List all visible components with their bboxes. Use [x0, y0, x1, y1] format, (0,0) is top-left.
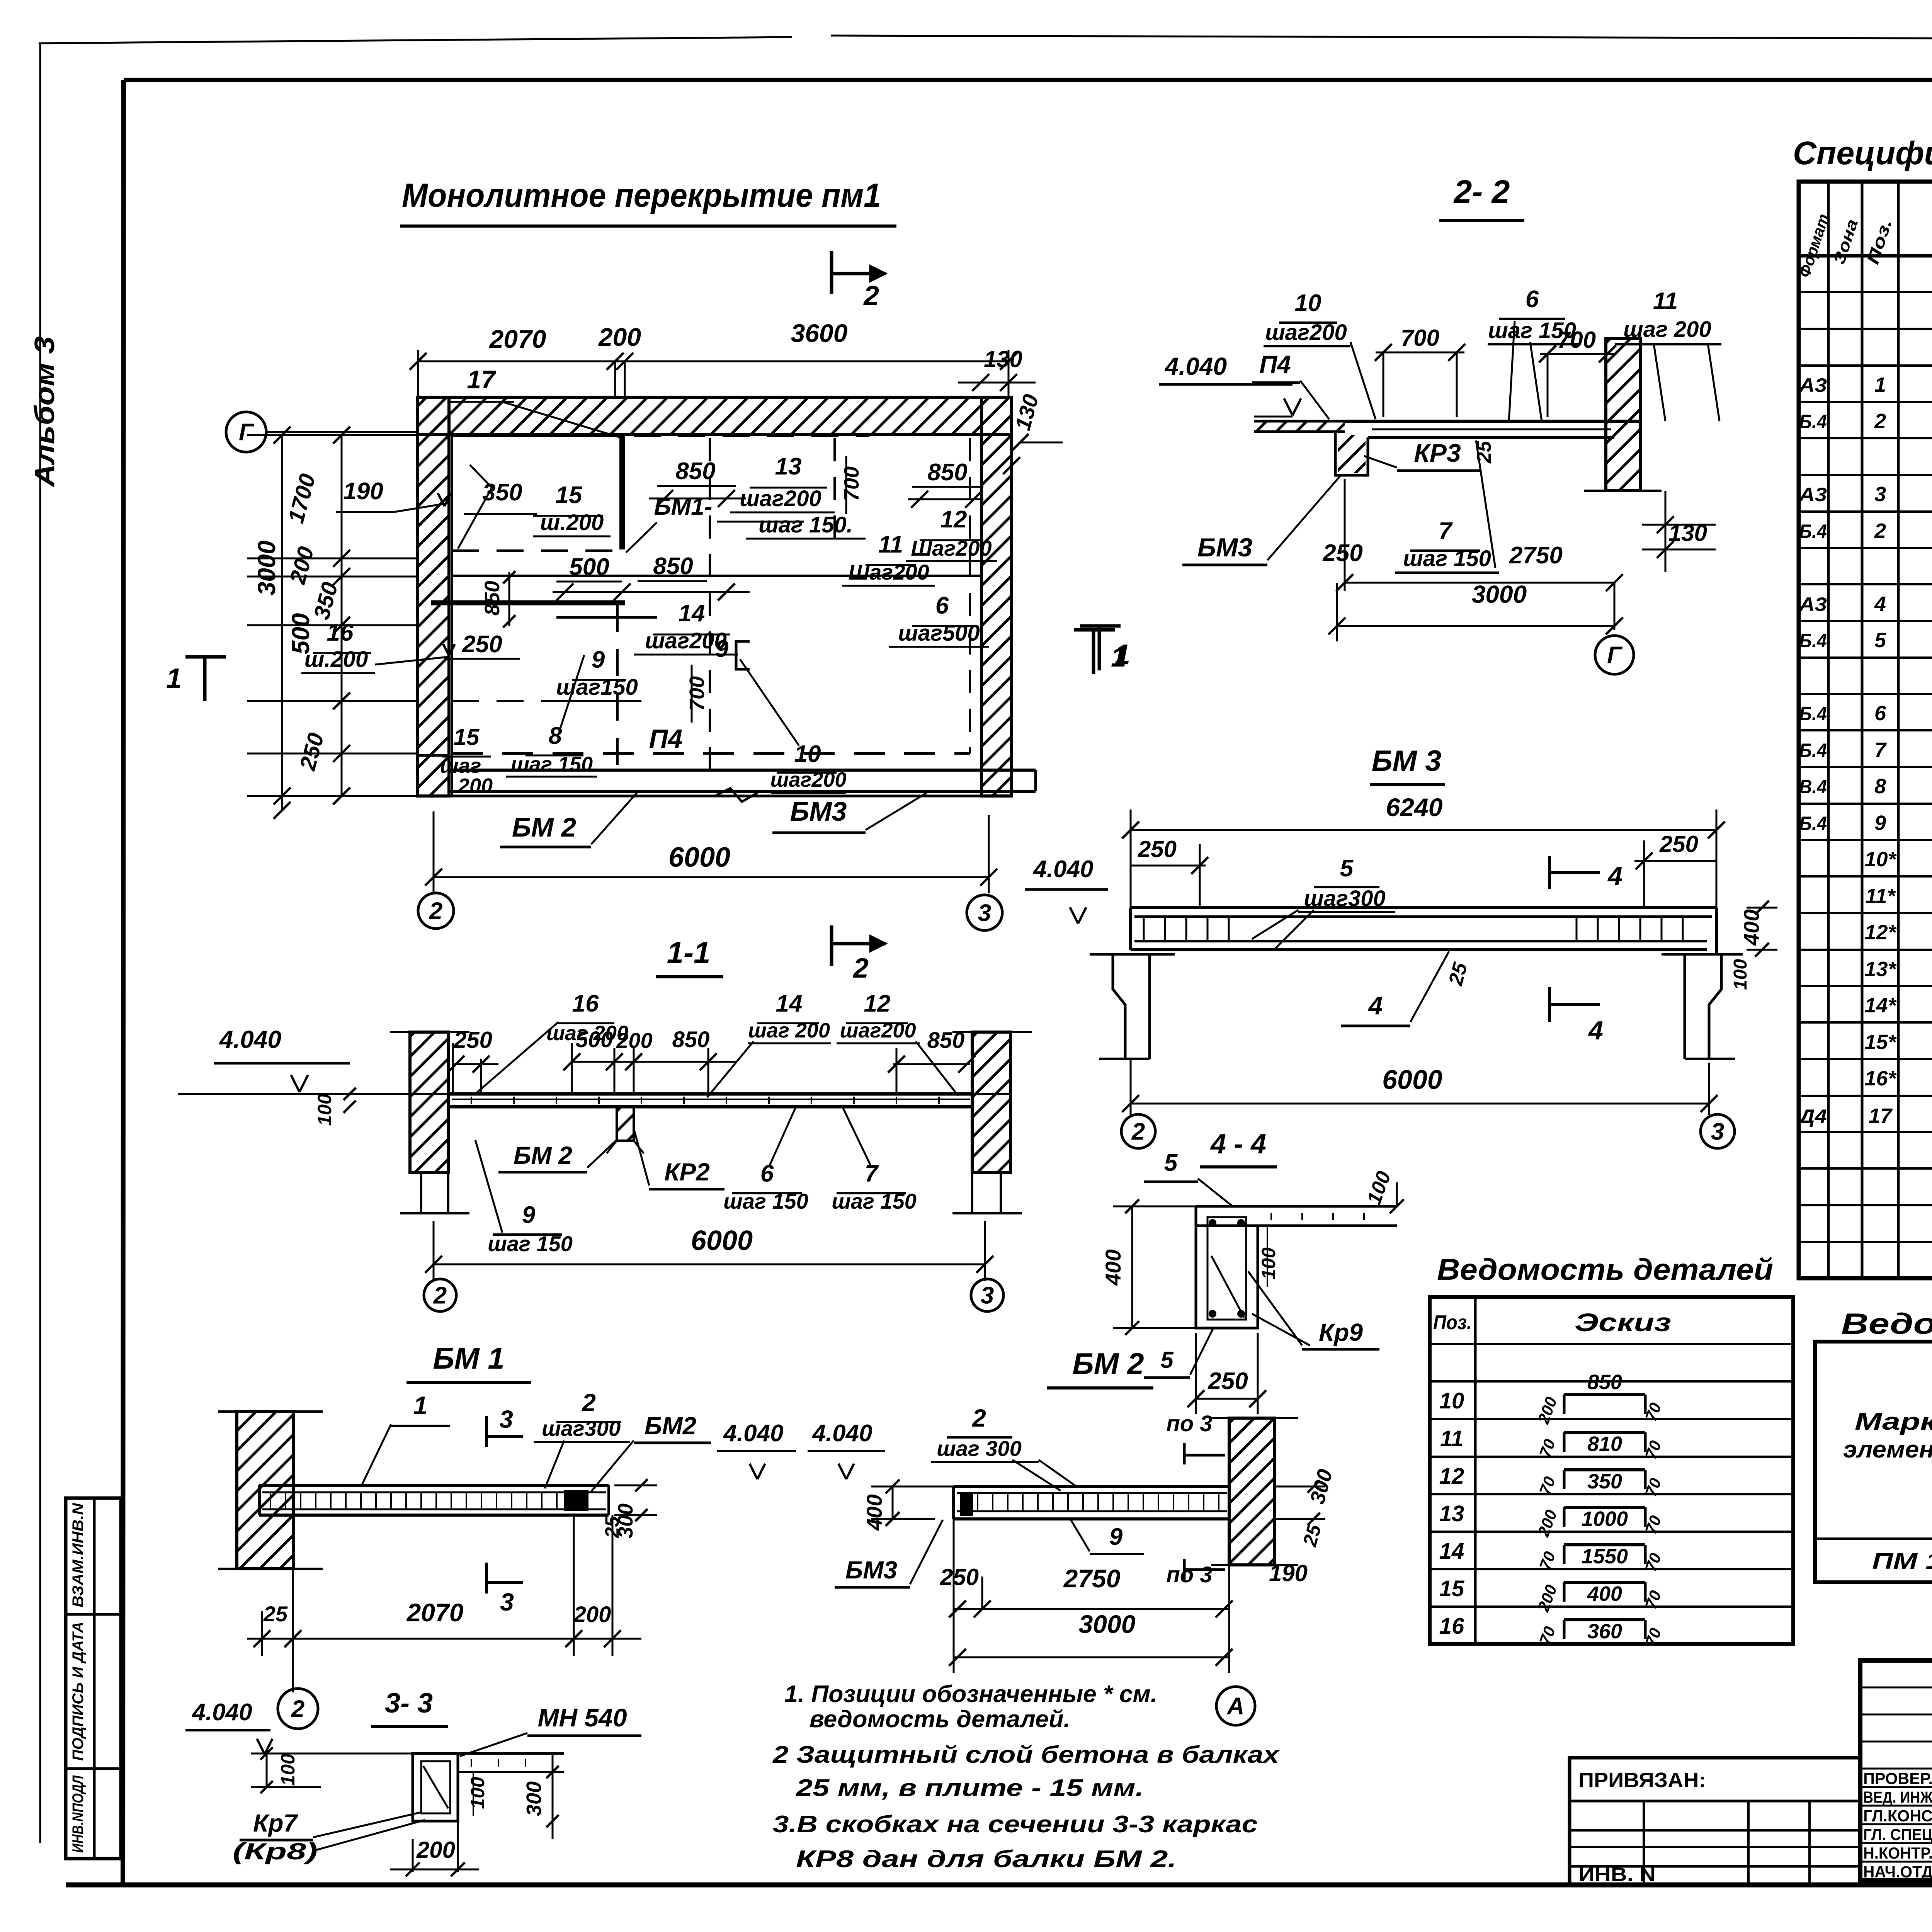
svg-text:Н.КОНТР.: Н.КОНТР. — [1863, 1844, 1932, 1862]
svg-text:МН 540: МН 540 — [537, 1703, 627, 1732]
svg-text:250: 250 — [453, 1027, 492, 1053]
svg-text:2: 2 — [1131, 1119, 1145, 1145]
svg-text:Альбом 3: Альбом 3 — [29, 336, 60, 488]
svg-text:10: 10 — [1295, 290, 1321, 316]
svg-text:6: 6 — [760, 1160, 774, 1187]
svg-text:ИНВ. N: ИНВ. N — [1578, 1864, 1656, 1885]
svg-text:КР2: КР2 — [664, 1158, 710, 1186]
svg-text:ВЕД. ИНЖ: ВЕД. ИНЖ — [1863, 1788, 1932, 1806]
svg-text:3000: 3000 — [253, 541, 281, 595]
svg-text:ГЛ. СПЕЦ: ГЛ. СПЕЦ — [1863, 1825, 1932, 1844]
svg-text:Кр9: Кр9 — [1319, 1318, 1363, 1346]
svg-text:Б.4: Б.4 — [1799, 813, 1827, 834]
svg-text:БМ2: БМ2 — [645, 1412, 696, 1440]
1-1 left wall — [410, 1032, 448, 1173]
plan dim 6000 — [434, 876, 989, 878]
svg-text:850: 850 — [653, 553, 693, 580]
BM3 section mark 4 top — [1548, 856, 1551, 889]
svg-text:300: 300 — [614, 1503, 637, 1538]
plan left dim chain — [281, 435, 283, 810]
svg-text:Шаг200: Шаг200 — [848, 560, 929, 584]
svg-text:13*: 13* — [1864, 957, 1897, 981]
svg-text:Поз.: Поз. — [1433, 1311, 1472, 1334]
section mark 2 top — [830, 251, 833, 294]
svg-text:16*: 16* — [1864, 1067, 1897, 1090]
svg-text:4.040: 4.040 — [219, 1026, 281, 1053]
svg-text:КР3: КР3 — [1414, 439, 1461, 467]
svg-text:шаг200: шаг200 — [645, 628, 727, 653]
svg-text:элемента: элемента — [1843, 1436, 1932, 1463]
svg-text:НАЧ.ОТД: НАЧ.ОТД — [1863, 1863, 1932, 1881]
svg-text:10*: 10* — [1864, 848, 1897, 871]
svg-text:4: 4 — [1588, 1016, 1603, 1045]
svg-text:БМ 2: БМ 2 — [1072, 1347, 1144, 1381]
svg-text:130: 130 — [984, 346, 1022, 372]
2-2 right wall — [1606, 338, 1640, 491]
svg-text:2: 2 — [1874, 519, 1886, 543]
svg-text:ВЗАМ.ИНВ.N: ВЗАМ.ИНВ.N — [70, 1503, 87, 1607]
2-2 drop beam — [1335, 432, 1368, 475]
svg-text:2750: 2750 — [1063, 1564, 1121, 1593]
svg-text:Б.4: Б.4 — [1799, 520, 1827, 542]
svg-text:13: 13 — [1439, 1501, 1464, 1526]
svg-text:7: 7 — [1439, 518, 1453, 544]
svg-text:12: 12 — [940, 506, 967, 533]
svg-text:14*: 14* — [1864, 994, 1897, 1017]
svg-text:4.040: 4.040 — [1164, 352, 1227, 380]
svg-text:БМ3: БМ3 — [790, 796, 847, 827]
svg-text:12: 12 — [1439, 1464, 1464, 1489]
svg-text:3: 3 — [1874, 483, 1886, 506]
svg-text:Ведомость расхода стали на э: Ведомость расхода стали на элемент кг — [1841, 1308, 1932, 1340]
svg-text:400: 400 — [1739, 909, 1764, 946]
svg-text:по 3: по 3 — [1166, 1411, 1212, 1436]
svg-text:Б.4: Б.4 — [1799, 740, 1827, 761]
svg-text:Д4: Д4 — [1797, 1105, 1827, 1127]
svg-text:шаг 150.: шаг 150. — [759, 512, 853, 537]
svg-text:А3: А3 — [1798, 484, 1827, 505]
svg-text:16: 16 — [1439, 1614, 1464, 1639]
svg-text:А: А — [1226, 1693, 1245, 1720]
svg-text:БМ1-: БМ1- — [654, 493, 713, 520]
svg-text:850: 850 — [1587, 1371, 1622, 1394]
svg-text:9: 9 — [1874, 811, 1886, 835]
svg-text:Г: Г — [1607, 642, 1623, 669]
svg-text:100: 100 — [1730, 959, 1751, 990]
2-2 section mark 1 — [1092, 630, 1095, 674]
svg-text:шаг300: шаг300 — [542, 1416, 621, 1440]
3-3 slab — [458, 1752, 564, 1755]
svg-text:360: 360 — [1587, 1620, 1622, 1643]
svg-text:3- 3: 3- 3 — [385, 1688, 433, 1719]
2-2 dim 700 left — [1376, 352, 1464, 354]
BM1 left wall — [237, 1412, 294, 1569]
svg-text:400: 400 — [1101, 1249, 1125, 1286]
svg-text:ГЛ.КОНС: ГЛ.КОНС — [1863, 1807, 1932, 1825]
svg-text:6000: 6000 — [691, 1225, 753, 1256]
svg-text:1: 1 — [413, 1391, 428, 1420]
svg-text:3000: 3000 — [1079, 1610, 1136, 1638]
svg-text:2750: 2750 — [1509, 542, 1563, 569]
svg-text:16: 16 — [572, 990, 599, 1017]
svg-text:БМ3: БМ3 — [1197, 533, 1253, 562]
svg-text:Спецификация к монолитному пер: Спецификация к монолитному перекрытию ПМ… — [1793, 135, 1932, 171]
svg-text:250: 250 — [1659, 831, 1698, 857]
svg-text:350: 350 — [1587, 1470, 1622, 1493]
svg-text:14: 14 — [679, 600, 705, 627]
BM1 beam — [259, 1484, 609, 1487]
svg-text:100: 100 — [277, 1753, 299, 1786]
svg-text:Монолитное перекрытие пм1: Монолитное перекрытие пм1 — [402, 177, 881, 214]
grid bubble 2 plan — [418, 893, 454, 929]
svg-text:Б.4: Б.4 — [1799, 630, 1827, 651]
svg-text:3: 3 — [499, 1405, 513, 1433]
svg-text:100: 100 — [314, 1094, 335, 1126]
title block frame — [1860, 1660, 1932, 1880]
svg-text:11: 11 — [1440, 1426, 1463, 1451]
svg-text:200: 200 — [457, 774, 493, 798]
svg-text:250: 250 — [462, 631, 502, 658]
svg-text:ПРОВЕР.: ПРОВЕР. — [1863, 1769, 1932, 1787]
svg-text:16: 16 — [327, 619, 354, 646]
section mark 1 right — [1098, 626, 1101, 670]
svg-text:П4: П4 — [649, 724, 683, 753]
section mark 1 left — [203, 657, 207, 701]
svg-text:БМ 2: БМ 2 — [512, 812, 576, 842]
svg-text:шаг 200: шаг 200 — [546, 1022, 628, 1045]
svg-text:БМ 1: БМ 1 — [433, 1341, 504, 1375]
BM3 left support — [1113, 954, 1125, 1059]
svg-text:В.4: В.4 — [1799, 776, 1827, 798]
svg-text:Шаг200: Шаг200 — [911, 536, 992, 560]
svg-text:200: 200 — [416, 1837, 455, 1863]
svg-text:2: 2 — [429, 898, 442, 925]
svg-text:15: 15 — [454, 724, 480, 750]
svg-text:3600: 3600 — [791, 319, 848, 347]
svg-text:6240: 6240 — [1386, 793, 1443, 821]
svg-text:15: 15 — [1439, 1576, 1464, 1601]
svg-text:7: 7 — [1874, 738, 1887, 762]
svg-text:2: 2 — [863, 281, 879, 311]
BM3 right support — [1709, 954, 1721, 1059]
svg-text:БМ3: БМ3 — [845, 1556, 897, 1584]
2-2 slab — [1345, 420, 1640, 423]
svg-text:ПОДПИСЬ И ДАТА: ПОДПИСЬ И ДАТА — [70, 1622, 87, 1761]
svg-text:15: 15 — [556, 482, 583, 509]
1-1 slab — [178, 1093, 1010, 1095]
svg-text:Эскиз: Эскиз — [1575, 1308, 1671, 1337]
BM1 bubble 2 — [278, 1689, 318, 1729]
svg-text:Г: Г — [239, 419, 255, 446]
svg-text:5: 5 — [1874, 629, 1886, 652]
svg-text:11: 11 — [1653, 288, 1678, 315]
svg-text:9: 9 — [522, 1202, 536, 1228]
svg-text:100: 100 — [467, 1777, 488, 1809]
1-1 right wall — [972, 1032, 1010, 1173]
svg-text:250: 250 — [940, 1564, 979, 1590]
svg-text:А3: А3 — [1798, 594, 1827, 615]
plan interior dashed lines — [452, 575, 981, 577]
svg-text:(Кр8): (Кр8) — [233, 1838, 318, 1864]
svg-text:3: 3 — [1711, 1119, 1724, 1145]
svg-text:БМ 3: БМ 3 — [1372, 745, 1442, 777]
4-4 beam outline — [1196, 1206, 1258, 1328]
svg-text:шаг 150: шаг 150 — [1403, 546, 1491, 571]
svg-text:шаг500: шаг500 — [898, 621, 980, 646]
plan top wall — [417, 397, 1012, 435]
svg-text:10: 10 — [1439, 1388, 1464, 1413]
1-1 bubble 2 — [424, 1279, 456, 1311]
plan bottom beam band — [417, 755, 449, 796]
svg-text:17: 17 — [1869, 1104, 1893, 1128]
plan dimension line top — [418, 361, 1009, 362]
svg-text:Ведомость деталей: Ведомость деталей — [1437, 1252, 1773, 1286]
drawing frame — [124, 78, 1932, 82]
plan opening leaders — [458, 465, 492, 549]
svg-text:3: 3 — [500, 1588, 514, 1616]
svg-text:4.040: 4.040 — [811, 1420, 872, 1447]
svg-text:2: 2 — [582, 1389, 596, 1417]
title block signature rows — [1860, 1687, 1932, 1689]
BM2 beam — [954, 1485, 1229, 1488]
BM1 bottom dims — [247, 1638, 641, 1640]
svg-text:6000: 6000 — [668, 842, 730, 873]
plan right wall — [981, 397, 1012, 796]
svg-text:шаг200: шаг200 — [770, 768, 847, 791]
sheet outer edge top — [39, 37, 792, 43]
svg-text:3: 3 — [978, 900, 991, 927]
1-1 beam BM2 cross — [617, 1107, 634, 1141]
svg-text:2- 2: 2- 2 — [1453, 173, 1510, 210]
svg-text:Б.4: Б.4 — [1799, 703, 1827, 724]
svg-text:2: 2 — [972, 1404, 986, 1432]
svg-text:шаг 200: шаг 200 — [748, 1019, 830, 1042]
svg-text:2: 2 — [1874, 410, 1886, 433]
BM3 bubble 2 — [1121, 1114, 1155, 1148]
steel table grid — [1815, 1342, 1932, 1582]
2-2 slab left strip — [1254, 420, 1345, 423]
svg-text:13: 13 — [775, 453, 802, 480]
BM1 section mark 3 top — [485, 1416, 488, 1447]
svg-text:1550: 1550 — [1582, 1545, 1628, 1568]
svg-text:2: 2 — [852, 953, 869, 984]
svg-text:850: 850 — [481, 581, 504, 616]
svg-text:200: 200 — [598, 323, 641, 351]
svg-text:4: 4 — [1874, 592, 1886, 616]
svg-text:190: 190 — [1269, 1560, 1308, 1586]
plan interior opening outline — [431, 600, 625, 605]
svg-text:250: 250 — [1138, 836, 1177, 862]
svg-text:1. Позиции обозначенные * см.: 1. Позиции обозначенные * см. — [784, 1681, 1157, 1708]
svg-text:4: 4 — [1607, 861, 1622, 891]
svg-text:4: 4 — [1368, 991, 1383, 1020]
svg-text:300: 300 — [522, 1781, 546, 1816]
2-2 bubble G — [1595, 636, 1634, 674]
BM3 section mark 4 bottom — [1548, 987, 1551, 1022]
svg-text:700: 700 — [1557, 327, 1596, 353]
svg-text:17: 17 — [467, 365, 497, 394]
svg-text:Кр7: Кр7 — [253, 1809, 298, 1837]
svg-text:7: 7 — [865, 1160, 879, 1187]
svg-text:3: 3 — [981, 1282, 994, 1309]
svg-text:шаг 150: шаг 150 — [511, 753, 593, 776]
svg-text:ПРИВЯЗАН:: ПРИВЯЗАН: — [1578, 1769, 1706, 1792]
svg-text:1: 1 — [166, 663, 182, 694]
svg-text:200: 200 — [573, 1602, 611, 1627]
svg-text:4.040: 4.040 — [723, 1420, 783, 1447]
1-1 dim 6000 — [434, 1264, 985, 1265]
svg-text:ведомость деталей.: ведомость деталей. — [810, 1706, 1070, 1733]
svg-text:850: 850 — [927, 1028, 965, 1053]
svg-text:190: 190 — [343, 478, 383, 505]
svg-text:9: 9 — [592, 646, 605, 673]
BM2 bubble A — [1216, 1687, 1255, 1725]
svg-text:шаг 150: шаг 150 — [832, 1189, 917, 1213]
svg-text:700: 700 — [1401, 325, 1439, 351]
svg-text:КР8 дан для балки БМ 2.: КР8 дан для балки БМ 2. — [796, 1846, 1177, 1872]
svg-text:6: 6 — [1526, 286, 1539, 313]
svg-text:3.В скобках на сечении 3-3 кар: 3.В скобках на сечении 3-3 каркас — [773, 1811, 1258, 1838]
BM3 beam — [1131, 906, 1716, 909]
svg-text:850: 850 — [927, 459, 967, 486]
svg-text:2070: 2070 — [406, 1598, 464, 1627]
svg-text:шаг 150: шаг 150 — [723, 1189, 808, 1213]
svg-text:5: 5 — [1340, 855, 1354, 882]
svg-text:850: 850 — [675, 458, 715, 485]
svg-text:400: 400 — [862, 1494, 886, 1531]
BM1 section mark 3 bottom — [485, 1563, 488, 1594]
svg-text:по 3: по 3 — [1166, 1562, 1212, 1587]
svg-text:100: 100 — [1258, 1247, 1279, 1280]
svg-text:ш.200: ш.200 — [540, 510, 604, 535]
svg-text:500: 500 — [569, 554, 609, 580]
svg-text:1: 1 — [1111, 642, 1126, 673]
svg-text:14: 14 — [1439, 1539, 1464, 1564]
svg-text:шаг200: шаг200 — [740, 486, 821, 511]
svg-text:6000: 6000 — [1382, 1065, 1442, 1095]
svg-text:шаг 150: шаг 150 — [488, 1231, 573, 1256]
plan break mark — [715, 788, 757, 802]
svg-text:9: 9 — [1109, 1524, 1123, 1550]
svg-text:Марка: Марка — [1855, 1408, 1932, 1435]
svg-text:2070: 2070 — [489, 325, 546, 353]
privyazan table — [1570, 1758, 1860, 1885]
svg-text:4.040: 4.040 — [191, 1699, 252, 1726]
svg-text:15*: 15* — [1864, 1031, 1897, 1054]
svg-text:6: 6 — [1874, 702, 1886, 725]
svg-text:250: 250 — [1322, 540, 1362, 566]
4-4 slab band — [1196, 1205, 1397, 1208]
BM3 bubble 3 — [1701, 1114, 1735, 1148]
svg-text:А3: А3 — [1798, 374, 1827, 396]
svg-text:12*: 12* — [1864, 921, 1897, 944]
left stamp box — [66, 1498, 121, 1859]
svg-text:700: 700 — [685, 676, 709, 711]
svg-text:8: 8 — [1874, 775, 1886, 798]
svg-text:шаг200: шаг200 — [840, 1019, 916, 1042]
svg-text:1-1: 1-1 — [667, 935, 711, 969]
svg-text:4.040: 4.040 — [1032, 856, 1093, 883]
svg-text:ПМ 1: ПМ 1 — [1872, 1549, 1932, 1574]
svg-text:350: 350 — [482, 479, 522, 506]
specification table grid — [1799, 182, 1932, 1278]
svg-text:шаг: шаг — [440, 754, 481, 777]
svg-text:850: 850 — [672, 1027, 710, 1052]
svg-text:1: 1 — [1874, 373, 1886, 396]
svg-text:25: 25 — [263, 1602, 288, 1626]
svg-text:250: 250 — [1207, 1368, 1248, 1395]
plan left wall — [417, 397, 449, 796]
svg-text:4 - 4: 4 - 4 — [1210, 1129, 1266, 1160]
1-1 bubble 3 — [971, 1279, 1003, 1311]
svg-text:БМ 2: БМ 2 — [514, 1141, 572, 1169]
svg-text:810: 810 — [1587, 1432, 1622, 1456]
section mark 2 bottom — [830, 925, 833, 966]
svg-text:шаг200: шаг200 — [1265, 320, 1347, 345]
svg-text:ИНВ.NПОДЛ: ИНВ.NПОДЛ — [70, 1775, 87, 1853]
svg-text:11*: 11* — [1865, 884, 1896, 908]
svg-text:2: 2 — [433, 1282, 447, 1309]
svg-text:700: 700 — [840, 466, 863, 501]
BM2 right wall — [1229, 1418, 1274, 1565]
svg-text:3000: 3000 — [1472, 580, 1527, 608]
svg-text:5: 5 — [1160, 1347, 1174, 1373]
svg-text:400: 400 — [1587, 1582, 1622, 1605]
svg-text:шаг 300: шаг 300 — [937, 1436, 1022, 1461]
svg-text:14: 14 — [776, 990, 803, 1017]
svg-text:1000: 1000 — [1582, 1507, 1628, 1531]
sheet outer edge left — [39, 43, 41, 1843]
grid bubble G — [226, 412, 266, 452]
svg-text:25 мм, в плите - 15 мм.: 25 мм, в плите - 15 мм. — [796, 1775, 1144, 1801]
svg-text:12: 12 — [864, 990, 891, 1017]
2-2 dim line 2750 — [1345, 582, 1614, 584]
svg-text:2: 2 — [291, 1696, 304, 1723]
svg-text:П4: П4 — [1259, 350, 1291, 378]
svg-text:2 Защитный слой бетона в балка: 2 Защитный слой бетона в балках — [772, 1742, 1280, 1768]
svg-text:6: 6 — [935, 592, 949, 619]
svg-text:5: 5 — [1164, 1150, 1178, 1176]
3-3 beam section — [413, 1753, 458, 1821]
svg-text:11: 11 — [878, 531, 903, 558]
grid bubble 3 plan — [967, 895, 1002, 930]
svg-text:ш.200: ш.200 — [304, 647, 368, 672]
vedomost detaley grid — [1430, 1297, 1793, 1644]
svg-text:шаг150: шаг150 — [556, 675, 638, 700]
svg-text:Б.4: Б.4 — [1799, 411, 1827, 432]
